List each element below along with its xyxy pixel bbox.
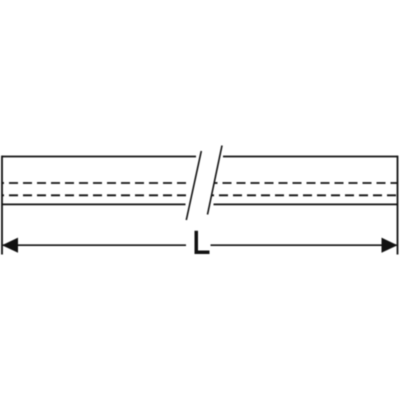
dimension label L <box>195 231 210 254</box>
left arrowhead <box>2 238 18 253</box>
thread dashed line lower right segment <box>212 194 398 196</box>
rod bottom edge left segment <box>2 203 186 205</box>
thread dashed line upper left segment <box>2 182 190 184</box>
dimension line right segment <box>211 244 397 246</box>
dimension line left segment <box>3 244 186 246</box>
rod top edge left segment <box>2 156 196 158</box>
break line left <box>186 151 201 220</box>
rod top edge right segment <box>223 156 398 158</box>
break line right <box>208 146 223 215</box>
thread dashed line lower left segment <box>2 194 186 196</box>
rod left end / left extension line <box>1 156 3 255</box>
rod bottom edge right segment <box>214 203 398 205</box>
right arrowhead <box>382 238 398 253</box>
rod right end / right extension line <box>397 156 399 255</box>
thread dashed line upper right segment <box>215 182 398 184</box>
